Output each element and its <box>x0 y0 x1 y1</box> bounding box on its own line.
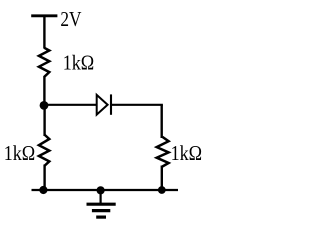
resistor R2 (left, 1k) zigzag <box>39 135 49 166</box>
junction dot bottom-right <box>158 186 166 194</box>
wire R2 bottom to ground rail <box>43 165 45 191</box>
svg-text:1kΩ: 1kΩ <box>4 142 36 166</box>
wire right corner down to R3 <box>160 105 162 138</box>
svg-text:2V: 2V <box>60 9 81 32</box>
wire node A down to R2 <box>43 105 45 136</box>
resistor R3 (right, 1k) zigzag <box>157 137 169 167</box>
diode D1 cathode bar <box>110 94 112 114</box>
ground stem <box>99 190 101 203</box>
junction dot bottom-left <box>39 186 47 194</box>
ground bar 3 <box>96 216 106 219</box>
power supply terminal bar (2V) <box>31 14 57 17</box>
wire node A to diode anode <box>44 104 97 106</box>
svg-text:1kΩ: 1kΩ <box>63 51 95 75</box>
svg-text:1kΩ: 1kΩ <box>171 141 203 165</box>
ground bar 2 <box>92 209 110 212</box>
junction dot bottom-middle <box>97 186 105 194</box>
ground bar 1 <box>87 203 116 206</box>
wire from terminal to R1 <box>43 16 45 49</box>
wire R3 bottom to ground rail <box>161 166 163 191</box>
wire R1 bottom to node A <box>43 76 45 106</box>
wire diode cathode to right corner <box>111 104 163 106</box>
resistor R1 (top, 1k) zigzag <box>39 48 49 77</box>
node A junction dot <box>40 101 49 110</box>
diode D1 triangle (anode) <box>97 95 108 115</box>
ground rail wire <box>32 189 179 191</box>
